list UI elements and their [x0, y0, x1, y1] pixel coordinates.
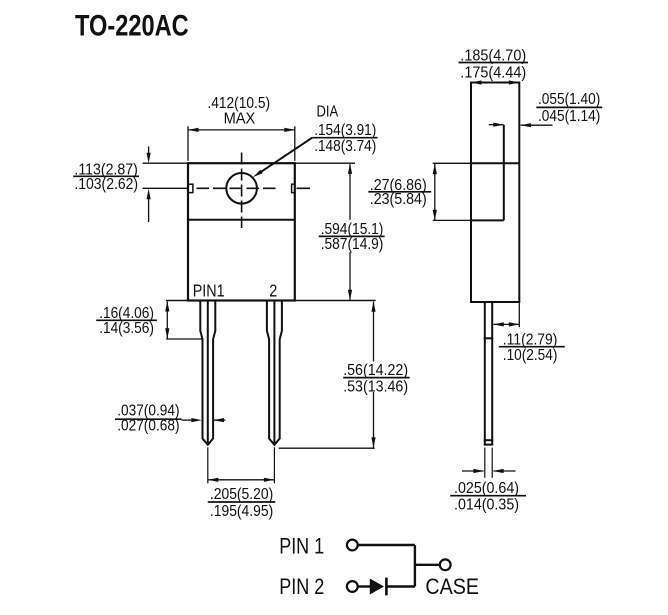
dimension .025(0.64)/.014(0.35) [450, 469, 526, 514]
right edge notch [292, 184, 295, 192]
dimension .185(4.70)/.175(4.44) [459, 47, 529, 84]
svg-text:.027(0.68): .027(0.68) [117, 418, 179, 435]
side view body outline [471, 83, 519, 303]
dimension .594(15.1)/.587(14.9) [319, 163, 385, 300]
mounting hole [226, 173, 257, 204]
svg-text:.205(5.20): .205(5.20) [210, 486, 273, 503]
dimension DIA .154(3.91)/.148(3.74) with leader arrow [253, 104, 378, 178]
wire pin1 to junction [358, 544, 415, 546]
svg-text:.045(1.14): .045(1.14) [538, 108, 600, 125]
dimension .055(1.40)/.045(1.14) [489, 91, 602, 127]
dimension .11(2.79)/.10(2.54) [493, 303, 565, 365]
svg-text:TO-220AC: TO-220AC [75, 9, 189, 42]
label pin 2 [269, 281, 277, 301]
svg-text:.587(14.9): .587(14.9) [321, 236, 384, 253]
side view lead [484, 302, 493, 445]
svg-text:.195(4.95): .195(4.95) [210, 503, 273, 520]
diode D1 [370, 578, 387, 596]
horizontal centerline (dashed) [197, 187, 311, 189]
svg-text:.154(3.91): .154(3.91) [314, 122, 376, 139]
svg-text:PIN 2: PIN 2 [279, 574, 324, 599]
vertical centerline (dashed) [241, 153, 243, 229]
dimension .16(4.06)/.14(3.56) [96, 301, 202, 339]
side view step bottom line [433, 219, 504, 221]
svg-text:.175(4.44): .175(4.44) [460, 64, 526, 81]
dimension .113(2.87)/.103(2.62) [73, 147, 188, 223]
schematic terminal circle pin 1 [347, 540, 358, 551]
side view tab inner line [503, 125, 505, 221]
lead tip extension lines [485, 448, 492, 478]
pin 2 lead [267, 301, 282, 445]
schematic terminal circle case [440, 559, 451, 570]
svg-text:.103(2.62): .103(2.62) [74, 176, 138, 193]
svg-text:CASE: CASE [425, 574, 479, 599]
svg-text:DIA: DIA [317, 104, 339, 121]
svg-text:.025(0.64): .025(0.64) [454, 480, 519, 497]
schematic terminal circle pin 2 [347, 581, 358, 592]
front view body outline [188, 163, 295, 300]
svg-text:PIN 1: PIN 1 [279, 534, 324, 559]
schematic label PIN 2 [279, 574, 324, 599]
svg-text:.10(2.54): .10(2.54) [503, 347, 558, 364]
schematic label PIN 1 [279, 534, 324, 559]
title TO-220AC [75, 9, 189, 42]
svg-text:.56(14.22): .56(14.22) [343, 362, 408, 379]
svg-text:2: 2 [269, 281, 277, 301]
wire pin2 to diode anode [358, 585, 370, 587]
svg-text:.412(10.5): .412(10.5) [207, 95, 270, 112]
left edge notch [188, 184, 193, 192]
svg-text:.148(3.74): .148(3.74) [314, 138, 376, 155]
svg-text:.53(13.46): .53(13.46) [343, 378, 408, 395]
top construction line (body top + extensions) [143, 162, 355, 164]
svg-text:PIN1: PIN1 [193, 281, 225, 301]
wire junction vertical [414, 545, 416, 587]
dimension .27(6.86)/.23(5.84) [368, 164, 437, 221]
front view tab/body divider line [188, 219, 295, 221]
dimension .205(5.20)/.195(4.95) [208, 478, 275, 520]
dimension .412(10.5) MAX [188, 95, 295, 161]
pin 1 lead [200, 301, 215, 445]
svg-text:MAX: MAX [224, 110, 256, 127]
body bottom extension line [166, 300, 376, 302]
wire junction to case terminal [415, 564, 440, 566]
wire diode cathode to junction [388, 585, 415, 587]
svg-text:.014(0.35): .014(0.35) [454, 497, 519, 514]
svg-text:.14(3.56): .14(3.56) [99, 320, 154, 337]
svg-text:.23(5.84): .23(5.84) [370, 191, 427, 208]
dimension .037(0.94)/.027(0.68) [115, 403, 225, 435]
side view step top line [433, 162, 520, 164]
dimension .56(14.22)/.53(13.46) [279, 301, 410, 448]
schematic label CASE [425, 574, 479, 599]
svg-text:.055(1.40): .055(1.40) [538, 91, 600, 108]
label PIN1 [193, 281, 225, 301]
pin tip extension lines [208, 447, 275, 483]
